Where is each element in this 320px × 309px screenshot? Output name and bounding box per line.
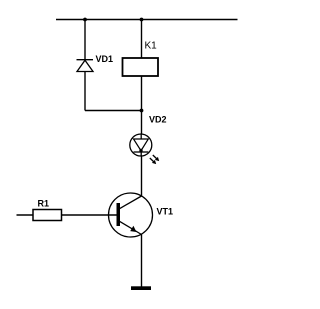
LED VD2: [130, 134, 159, 164]
ground: [131, 286, 151, 290]
wire from R1 to transistor base: [62, 214, 117, 216]
wire base input (left segment): [17, 214, 34, 216]
node junction left (diode branch): [83, 18, 87, 22]
wire emitter down to ground: [141, 235, 143, 288]
wire from VD1 anode down: [84, 72, 86, 111]
wire from LED cathode down to transistor collector: [141, 156, 143, 196]
svg-text:VT1: VT1: [157, 207, 174, 217]
wire top supply rail: [56, 19, 238, 21]
diode VD1 (cathode bar up, anode triangle pointing up): [77, 60, 94, 72]
wire from relay coil down to LED: [141, 76, 143, 135]
relay coil K1: [123, 58, 159, 76]
LED emission arrow 1: [153, 155, 159, 161]
svg-text:K1: K1: [145, 41, 158, 52]
emitter lead with arrow: [120, 221, 142, 234]
wire from right junction down to relay coil: [141, 20, 143, 59]
LED emission arrow 2: [150, 158, 156, 164]
collector lead: [120, 196, 142, 209]
svg-text:VD2: VD2: [149, 115, 167, 125]
resistor R1: [33, 210, 62, 221]
node junction right (relay branch): [140, 18, 144, 22]
wire from left junction down to VD1 cathode: [84, 20, 86, 61]
node junction below relay: [140, 109, 144, 113]
svg-text:R1: R1: [38, 199, 50, 209]
wire horizontal joining VD1 branch to relay branch: [85, 110, 142, 112]
svg-text:VD1: VD1: [96, 54, 114, 64]
transistor VT1 (NPN): [109, 193, 153, 237]
